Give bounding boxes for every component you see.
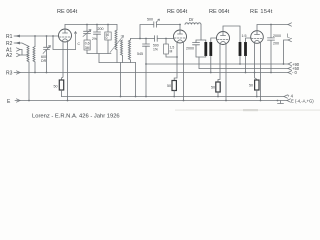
grid leak resistor R3 1,5M	[165, 38, 167, 40]
terminal A1	[6, 48, 20, 54]
wire tie line to +4 bus	[120, 63, 122, 97]
wire A1-A2 link	[21, 50, 23, 56]
terminal A2	[6, 53, 20, 59]
T1 primary bottom to +50	[196, 56, 206, 57]
wire tie right end to +4 bus	[135, 63, 137, 97]
transformer T2 primary bar	[239, 42, 242, 56]
node C1 grid line	[46, 35, 48, 37]
potentiometer arm wire	[74, 32, 76, 50]
svg-text:200: 200	[98, 27, 104, 31]
V3 filament legs	[218, 44, 220, 82]
svg-text:1:5: 1:5	[242, 34, 247, 38]
svg-text:50: 50	[211, 86, 215, 90]
V4 filament legs	[255, 43, 257, 80]
V1 anode	[63, 29, 68, 33]
variable capacitor C1 tuning	[43, 36, 51, 73]
wire grid tap to filament line	[53, 36, 76, 50]
terminal E right	[287, 99, 291, 102]
transformer T1 primary bar	[204, 42, 207, 56]
svg-text:Dr: Dr	[189, 17, 194, 22]
wire A1	[20, 49, 22, 51]
svg-text:2000: 2000	[273, 34, 281, 38]
svg-text:50: 50	[54, 85, 58, 89]
node E bus coil	[28, 100, 30, 102]
terminal -0 right	[288, 71, 292, 74]
+90 bus	[146, 63, 288, 65]
resistor box Rg1	[84, 40, 90, 50]
rheostat 500 of V4	[255, 80, 259, 90]
svg-text:50: 50	[167, 84, 171, 88]
T1 secondary bottom to minus bus	[210, 56, 212, 73]
anode choke Dr	[185, 23, 201, 25]
V2 filament	[177, 40, 183, 42]
+50 bus	[199, 68, 288, 70]
T2 primary bottom to +90	[239, 56, 241, 64]
svg-text:50: 50	[249, 84, 253, 88]
E bus	[15, 100, 287, 102]
tube label RE 064t (V2)	[167, 9, 188, 15]
T1 secondary top to V3 grid	[211, 38, 217, 42]
svg-text:R3: R3	[6, 71, 13, 77]
node neutralizing on grid line	[139, 38, 141, 40]
grid line to V2	[131, 38, 155, 40]
V4 anode	[255, 31, 260, 35]
label 200	[92, 27, 104, 41]
label 500 with trim arrow	[147, 18, 153, 22]
svg-text:A2: A2	[6, 53, 12, 59]
triode V2 envelope	[174, 30, 187, 43]
svg-text:R1: R1	[6, 34, 13, 40]
rheostat 50 of V2	[172, 81, 176, 91]
wire R1 to grid V1	[14, 35, 59, 37]
V3 anode lead to T2	[223, 26, 240, 42]
V4 grid	[252, 38, 263, 40]
svg-text:RE 154t: RE 154t	[250, 9, 273, 15]
node x87	[86, 24, 88, 26]
svg-text:L: L	[287, 34, 290, 40]
+4 bus	[62, 96, 285, 98]
svg-text:Lorenz - E.R.N.A. 426 - Jahr 1: Lorenz - E.R.N.A. 426 - Jahr 1926	[32, 114, 120, 120]
terminal R2	[6, 41, 20, 47]
node coil Lb / grid line	[34, 35, 36, 37]
wire coil Lb bottom to minus bus	[34, 62, 36, 72]
V1 grid (dashed)	[60, 36, 71, 38]
V4 filament	[254, 40, 260, 42]
svg-text:200: 200	[273, 42, 279, 46]
trimmer capacitor C2	[83, 25, 91, 41]
V2 filament legs	[174, 43, 177, 81]
output capacitor C8 2000	[270, 25, 272, 38]
node Lb minus bus	[34, 72, 36, 74]
svg-text:0: 0	[106, 36, 108, 40]
label C=	[78, 42, 81, 46]
tube label RE 064t (V1)	[57, 9, 78, 15]
minus 0 bus (R3 line)	[14, 72, 288, 74]
rheostat R 500 of V1	[59, 80, 63, 90]
wire coil La bottom to E bus	[28, 62, 30, 100]
V2 anode lead	[179, 25, 181, 31]
tube label RE 064t (V3)	[209, 9, 230, 15]
T2 secondary top to V4 grid	[246, 38, 252, 42]
tube label RE 154t (V4)	[250, 9, 273, 15]
ground symbol	[278, 101, 284, 104]
T2 secondary bottom to minus bus	[245, 56, 247, 73]
svg-text:E (-4,-A,+G): E (-4,-A,+G)	[291, 98, 314, 103]
V2 grid	[175, 37, 186, 39]
node tie +4	[120, 96, 122, 98]
triode V3 envelope	[217, 32, 230, 45]
secondary coil Lb	[33, 47, 35, 62]
terminal L bottom	[288, 38, 292, 41]
transformer T1 secondary bar	[209, 42, 212, 56]
svg-text:545: 545	[137, 52, 143, 56]
scan artifact streak	[175, 109, 320, 111]
tie line of coil bottoms	[99, 62, 136, 64]
wire Rg1 to local bus	[86, 50, 88, 54]
neutralizing line with capacitor C4 500	[140, 25, 154, 39]
tuned coil L3 545	[128, 40, 130, 60]
transformer T2 secondary bar	[244, 42, 247, 56]
terminal R1	[6, 34, 20, 40]
tuning capacitor C6	[143, 39, 150, 97]
HF coil L1 primary	[116, 25, 118, 31]
svg-text:1%: 1%	[153, 47, 158, 51]
terminal +4	[284, 95, 288, 98]
svg-text:RE 064t: RE 064t	[57, 9, 78, 15]
wire A2 to antenna coil	[20, 54, 28, 56]
node C1 minus bus	[46, 72, 48, 74]
V3 filament	[220, 41, 226, 43]
variometer coil L2	[121, 40, 123, 55]
V1 filament legs	[62, 42, 64, 81]
svg-text:C: C	[78, 42, 81, 46]
resistor box R2a	[105, 25, 111, 54]
caption	[32, 114, 120, 120]
V4 anode lead	[257, 25, 288, 31]
svg-text:- 0: - 0	[292, 70, 298, 75]
node V4 leg on minus bus	[254, 72, 256, 74]
terminal L top	[288, 23, 292, 26]
svg-text:R2: R2	[6, 41, 13, 47]
rheostat 50 of V3	[216, 82, 220, 92]
antenna coil La	[27, 47, 29, 62]
svg-text:3M: 3M	[85, 46, 90, 50]
V3 grid	[218, 39, 229, 41]
svg-text:DR: DR	[41, 59, 47, 63]
svg-text:RE 064t: RE 064t	[167, 9, 188, 15]
node V1 leg on E bus	[67, 100, 69, 102]
label 600 DR	[41, 55, 47, 63]
V1 filament	[62, 39, 68, 41]
svg-text:2000: 2000	[186, 47, 194, 51]
node x97	[96, 24, 98, 26]
wire Dr to transformer T1	[201, 25, 206, 43]
V3 anode	[221, 32, 226, 36]
bypass capacitor C7 2000	[196, 40, 201, 43]
triode V1 envelope	[59, 29, 72, 42]
label 545	[137, 52, 143, 56]
wire coil Lb top to grid line	[34, 36, 36, 47]
anode line V1	[65, 24, 117, 26]
svg-text:E: E	[7, 99, 11, 105]
V1 anode lead	[64, 25, 66, 30]
terminal R3 left	[17, 71, 21, 74]
svg-text:RE 064t: RE 064t	[209, 9, 230, 15]
V2 anode	[178, 30, 183, 34]
terminal +50	[288, 67, 292, 70]
triode V4 envelope	[251, 31, 264, 44]
grid capacitor C5	[155, 36, 158, 42]
local bus under V1 stage	[87, 53, 111, 55]
terminal E left	[17, 99, 21, 102]
svg-text:2%: 2%	[92, 37, 97, 41]
terminal +90	[288, 62, 292, 65]
svg-text:M: M	[170, 49, 173, 53]
variometer arrow	[110, 36, 124, 53]
node x107	[107, 24, 109, 26]
capacitor C3	[94, 25, 101, 54]
wire R2 diagonal to coil top	[14, 43, 29, 47]
svg-text:500: 500	[147, 18, 153, 22]
wire rheostat to +4 bus	[61, 90, 63, 97]
